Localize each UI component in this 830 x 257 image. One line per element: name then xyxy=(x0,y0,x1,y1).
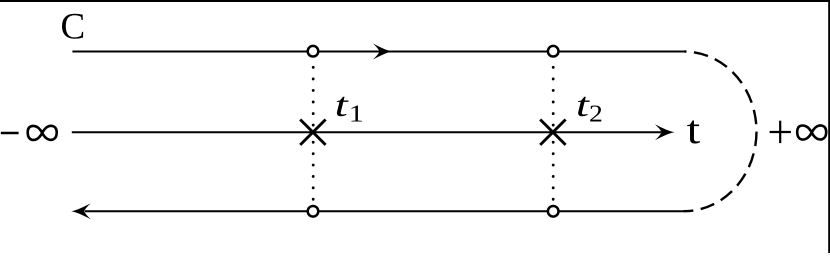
node circle upper t1 xyxy=(308,46,319,57)
svg-text:t: t xyxy=(335,85,350,123)
svg-text:C: C xyxy=(61,7,86,48)
cross mark t2 xyxy=(540,120,565,145)
svg-text:2: 2 xyxy=(589,100,603,127)
frame right edge xyxy=(828,0,830,253)
label t1 xyxy=(335,85,350,123)
node circle upper t2 xyxy=(548,46,559,57)
label t (axis) xyxy=(687,107,701,152)
wire: time axis xyxy=(72,131,661,133)
arrowhead lower branch (pointing left) xyxy=(71,203,91,219)
arrowhead mid upper branch (pointing right) xyxy=(373,44,393,60)
node circle lower t2 xyxy=(548,206,559,217)
node circle lower t1 xyxy=(308,206,319,217)
dotted node line at t2 (upper) xyxy=(552,67,555,126)
label minus infinity xyxy=(1,126,57,140)
arrowhead on time axis (right end) xyxy=(655,124,675,140)
label plus infinity xyxy=(770,121,827,143)
svg-text:t: t xyxy=(687,107,701,152)
cross mark t1 xyxy=(300,120,325,145)
dotted node line at t1 (lower) xyxy=(312,142,315,199)
wire: lower branch of contour xyxy=(85,210,684,212)
dashed return arc at +infinity xyxy=(684,52,757,212)
label t2 xyxy=(576,85,591,123)
dotted node line at t1 (upper) xyxy=(312,67,315,126)
wire: upper branch of contour xyxy=(72,51,684,53)
svg-text:1: 1 xyxy=(349,100,364,127)
frame top edge xyxy=(0,0,830,2)
dotted node line at t2 (lower) xyxy=(552,142,555,199)
